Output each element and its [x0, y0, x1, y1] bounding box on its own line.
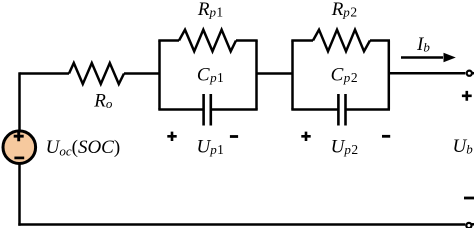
- wire: box1 to box2: [257, 72, 293, 75]
- RC network 1: right edge: [255, 41, 258, 110]
- wire stub to right edge (top): [472, 72, 474, 75]
- polarity minus Up2: [382, 135, 390, 138]
- wire stub to right edge (bottom): [472, 223, 474, 226]
- RC network 2: top branch lead right: [370, 39, 390, 42]
- wire: left riser bottom (source bottom to ground rail): [18, 164, 21, 226]
- RC network 1: top branch lead right: [236, 39, 258, 42]
- node: positive terminal: [467, 71, 472, 76]
- source minus mark: [14, 157, 24, 160]
- wire: left riser top (source top to main wire): [18, 72, 21, 132]
- RC network 2: top branch lead left: [291, 39, 313, 42]
- RC network 1: left edge: [158, 41, 161, 110]
- polarity plus Ub: [462, 91, 472, 101]
- source plus mark: [14, 131, 24, 141]
- RC network 2: bottom branch left lead: [291, 108, 338, 111]
- polarity plus Up1: [167, 132, 176, 141]
- capacitor Cp1 plate left: [202, 94, 205, 126]
- node: negative terminal: [466, 223, 471, 228]
- capacitor Cp2 plate left: [337, 94, 340, 126]
- polarity minus Ub: [464, 197, 474, 200]
- wire: top-left horizontal from source riser to Ro: [20, 72, 70, 75]
- resistor Rp2: [313, 30, 370, 52]
- resistor Ro: [69, 63, 124, 84]
- resistor Rp1: [179, 30, 236, 52]
- wire: bottom rail: [18, 223, 465, 226]
- polarity plus Up2: [301, 132, 310, 141]
- wire: box2 to positive terminal: [389, 72, 466, 75]
- RC network 2: left edge: [291, 41, 294, 110]
- RC network 1: top branch lead left: [158, 39, 179, 42]
- RC network 2: right edge: [388, 41, 391, 110]
- current arrow Ib: [401, 56, 443, 59]
- voltage source Uoc: [3, 131, 36, 164]
- wire: Ro to box1: [124, 72, 160, 75]
- RC network 2: bottom branch right lead: [346, 108, 390, 111]
- capacitor Cp2 plate right: [344, 94, 347, 126]
- RC network 1: bottom branch right lead: [211, 108, 258, 111]
- capacitor Cp1 plate right: [210, 94, 213, 126]
- polarity minus Up1: [230, 135, 238, 138]
- RC network 1: bottom branch left lead: [158, 108, 203, 111]
- svg-text:Uoc(SOC): Uoc(SOC): [46, 137, 121, 158]
